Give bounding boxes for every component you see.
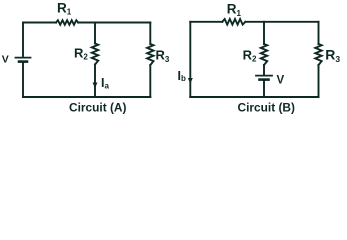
wire B left bbox=[189, 22, 191, 97]
current arrow Ib (circuit B) bbox=[188, 78, 193, 84]
resistor R3 (circuit A) bbox=[147, 44, 153, 65]
wire A left upper bbox=[22, 23, 24, 57]
wire A middle upper bbox=[94, 23, 96, 44]
wire A right upper bbox=[149, 23, 151, 45]
svg-text:Circuit (A): Circuit (A) bbox=[69, 100, 127, 114]
wire B bottom bbox=[190, 96, 318, 98]
resistor R2 (circuit A) bbox=[92, 44, 98, 65]
battery V (circuit B) bbox=[256, 76, 272, 80]
wire B middle upper bbox=[263, 22, 265, 44]
svg-text:V: V bbox=[2, 54, 9, 66]
wire B right lower bbox=[318, 65, 320, 97]
wire A left lower bbox=[22, 63, 24, 97]
resistor R1 (circuit B) bbox=[222, 19, 245, 25]
wire A right lower bbox=[149, 65, 151, 97]
svg-text:V: V bbox=[277, 74, 285, 86]
resistor R3 (circuit B) bbox=[315, 44, 321, 65]
battery V (circuit A) bbox=[16, 58, 31, 62]
wire B top-left bbox=[190, 21, 222, 23]
wire A top-left bbox=[23, 22, 56, 24]
wire B middle lower bbox=[263, 81, 265, 97]
resistor R2 (circuit B) bbox=[261, 44, 267, 65]
wire A middle lower bbox=[94, 65, 96, 98]
wire B middle mid bbox=[263, 65, 265, 75]
wire A top-right bbox=[78, 22, 150, 24]
resistor R1 (circuit A) bbox=[56, 20, 78, 25]
svg-text:Circuit (B): Circuit (B) bbox=[238, 100, 296, 114]
wire B top-right bbox=[245, 21, 318, 23]
current arrow Ia (circuit A) bbox=[93, 83, 98, 89]
wire A bottom bbox=[23, 96, 150, 98]
wire B right upper bbox=[318, 22, 320, 44]
